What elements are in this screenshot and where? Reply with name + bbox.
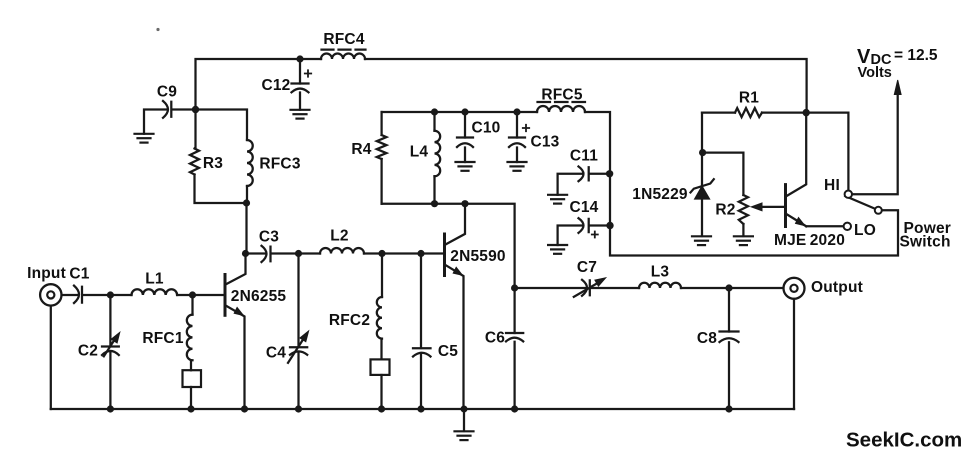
resistor R1: [735, 108, 762, 117]
ferrite bead of RFC1: [183, 370, 202, 387]
node: C9 junction: [192, 106, 199, 113]
svg-text:LO: LO: [854, 222, 876, 239]
inductor RFC1: [187, 315, 193, 361]
node: C3 left junction: [242, 250, 249, 257]
svg-text:L4: L4: [410, 144, 429, 161]
svg-text:R4: R4: [351, 141, 371, 158]
ground at C9: [135, 134, 154, 143]
wire: tank left R4 leads: [380, 112, 382, 204]
svg-text:C10: C10: [471, 120, 500, 137]
output connector: [784, 278, 805, 299]
node: C8 top junction: [725, 284, 732, 291]
variable capacitor C4: [288, 331, 309, 363]
capacitor C3: [262, 246, 271, 262]
wire: bottom ground rail: [51, 408, 794, 410]
wire: R1 row: [702, 113, 848, 191]
wire: C3 row, L2 row to 2N5590 base: [246, 252, 444, 254]
label VDC = 12.5 Volts: [857, 46, 938, 81]
node: C5 junction: [417, 250, 424, 257]
node: L1-RFC1 junction: [189, 291, 196, 298]
wire: MJE2020 emitter to LO: [806, 225, 843, 227]
wire: node right and down to RFC3: [196, 110, 248, 141]
node: RFC3 bottom junction: [243, 199, 250, 206]
wire: RFC3 bottom and drop to C3 row: [245, 186, 248, 254]
wire: input to C1: [62, 294, 78, 296]
node: L4 top: [431, 108, 438, 115]
inductor RFC4: [321, 50, 366, 59]
input connector: [40, 284, 61, 305]
capacitor C12 (electrolytic): [292, 70, 312, 92]
wire: C14 leads and ground stub: [558, 226, 610, 246]
switch contact HI: [845, 191, 852, 198]
svg-text:RFC1: RFC1: [142, 330, 183, 347]
node: L4 bottom: [431, 200, 438, 207]
inductor RFC2: [377, 297, 382, 339]
node: C13 top: [513, 108, 520, 115]
inductor L4: [435, 131, 441, 177]
node: C1-L1 junction: [107, 291, 114, 298]
wire: L1 leads and base wire to 2N6255: [110, 294, 224, 296]
wire: RFC1 branch: [191, 295, 193, 409]
node: zener junction: [699, 149, 706, 156]
VDC arrow: [894, 80, 901, 95]
wire: C7 row and L3 row to output: [515, 287, 784, 289]
node: 2N5590 collector junction: [461, 200, 468, 207]
capacitor C8: [720, 332, 739, 343]
node: C14 junction: [606, 222, 613, 229]
capacitor C11: [579, 167, 589, 182]
svg-text:L1: L1: [145, 271, 164, 288]
wire: C4 branch: [297, 254, 299, 410]
inductor L3: [639, 283, 681, 288]
wire: RFC5 to right vertical, power bottom rail, up to switch pivot: [585, 112, 898, 256]
node: C11 junction: [606, 170, 613, 177]
svg-text:HI: HI: [824, 177, 840, 194]
variable capacitor C7: [574, 278, 606, 297]
wire: HI to VDC arrow riser: [852, 94, 898, 194]
capacitor C13 (electrolytic): [509, 125, 529, 147]
wire: C11 leads and ground stub: [558, 174, 610, 195]
svg-text:R1: R1: [739, 90, 759, 107]
node: C7 row left junction: [511, 284, 518, 291]
svg-text:C11: C11: [570, 148, 598, 165]
wire: C1 to L1 junction: [83, 294, 110, 296]
variable capacitor C2: [102, 332, 120, 356]
resistor R4: [377, 135, 387, 159]
ground at C14: [548, 245, 567, 254]
inductor RFC3: [247, 140, 253, 186]
svg-text:1N5229: 1N5229: [632, 186, 688, 203]
svg-text:RFC3: RFC3: [259, 156, 300, 173]
svg-text:C14: C14: [569, 199, 598, 216]
inductor L1: [132, 289, 178, 295]
svg-text:2N6255: 2N6255: [231, 288, 287, 305]
svg-text:Volts: Volts: [858, 65, 892, 81]
ground at 1N5229: [692, 236, 711, 245]
node: rail 2N6255 emitter: [241, 405, 248, 412]
ground at emitter rail: [455, 409, 474, 440]
ground at C13: [508, 162, 527, 171]
ground at C11: [548, 195, 567, 204]
capacitor C10: [457, 138, 473, 148]
switch pivot: [875, 207, 882, 214]
svg-text:Switch: Switch: [900, 234, 951, 251]
wire: top supply rail right segment down to R1 junction: [365, 59, 807, 113]
capacitor C6: [506, 333, 523, 341]
switch contact LO: [844, 223, 851, 230]
ground at R2: [734, 236, 753, 245]
svg-text:C5: C5: [438, 343, 458, 360]
wire: input connector drop: [50, 306, 52, 409]
wire: RFC2 branch: [380, 254, 383, 410]
svg-text:C9: C9: [157, 84, 177, 101]
potentiometer R2: [739, 195, 748, 224]
svg-text:C3: C3: [259, 229, 279, 246]
wire: C13 leads: [516, 112, 518, 162]
ferrite bead of RFC2: [371, 359, 390, 375]
svg-text:SeekIC.com: SeekIC.com: [846, 429, 962, 452]
svg-text:C2: C2: [78, 343, 98, 360]
node: C12 junction: [296, 55, 303, 62]
wire: tank bottom rail and drop to C7 row and C6: [382, 204, 515, 409]
svg-text:C6: C6: [485, 330, 505, 347]
wire: output connector drop: [793, 299, 795, 409]
svg-text:MJE 2020: MJE 2020: [774, 232, 845, 249]
transistor Q3 MJE2020: [786, 113, 807, 227]
node: rail C8: [725, 405, 732, 412]
svg-text:R2: R2: [715, 202, 735, 219]
node: rail C4: [295, 405, 302, 412]
wire: L4 leads: [433, 112, 435, 204]
wire: C5 branch: [420, 254, 422, 410]
node: rail RFC1: [187, 405, 194, 412]
wire: C10 leads: [464, 112, 466, 162]
ground at C10: [456, 162, 475, 171]
node: rail RFC2: [378, 405, 385, 412]
node: rail ground: [461, 406, 468, 413]
wire: C9 right lead to node: [172, 108, 195, 110]
svg-text:Input: Input: [27, 265, 66, 282]
wire: C8 branch: [728, 288, 730, 409]
svg-text:C1: C1: [69, 266, 89, 283]
svg-text:Output: Output: [811, 279, 863, 296]
svg-text:RFC5: RFC5: [541, 87, 582, 104]
capacitor C14 (electrolytic): [579, 218, 598, 237]
svg-text:RFC4: RFC4: [323, 31, 364, 48]
capacitor C5: [413, 348, 431, 356]
node: rail C5: [417, 405, 424, 412]
svg-text:C4: C4: [266, 345, 286, 362]
wire: C9 left lead to ground: [144, 110, 167, 134]
wire: C12 stubs: [299, 59, 301, 110]
transistor Q1 2N6255: [225, 254, 246, 410]
zener diode 1N5229: [691, 179, 714, 199]
wire: tank top rail: [382, 111, 537, 113]
wire: R3 bottom to RFC3 bottom junction: [195, 175, 247, 204]
node: rail C6: [511, 405, 518, 412]
capacitor C9: [163, 101, 171, 118]
svg-text:R3: R3: [203, 155, 223, 172]
inductor RFC5: [537, 102, 585, 112]
svg-text:C12: C12: [261, 77, 290, 94]
capacitor C1: [74, 286, 82, 303]
svg-text:C8: C8: [697, 330, 717, 347]
svg-text:L2: L2: [330, 228, 349, 245]
svg-text:C13: C13: [530, 134, 559, 151]
wire: top supply rail left segment with vertical from C9 node: [196, 59, 322, 110]
node: rail C2: [107, 405, 114, 412]
svg-text:L3: L3: [651, 264, 670, 281]
resistor R3: [190, 149, 199, 175]
node: RFC2 junction: [378, 250, 385, 257]
wire: switch blade: [845, 196, 875, 209]
transistor Q2 2N5590: [445, 204, 466, 409]
node: C10 top: [461, 108, 468, 115]
ground at C12: [291, 110, 310, 119]
node: R1 right junction: [803, 109, 810, 116]
wire: C2 branch: [109, 295, 111, 409]
wire: R2 branch from zener junction: [703, 153, 744, 236]
svg-text:C7: C7: [577, 259, 597, 276]
svg-text:RFC2: RFC2: [329, 312, 370, 329]
inductor L2: [320, 248, 364, 253]
svg-text:2N5590: 2N5590: [450, 248, 506, 265]
node A (scan speck): [156, 28, 159, 31]
potentiometer wiper arrow of R2: [751, 203, 785, 211]
svg-text:= 12.5: = 12.5: [894, 47, 938, 64]
node: C4 junction: [295, 250, 302, 257]
wire: zener branch vertical: [701, 113, 703, 236]
wire: node down to R3: [194, 110, 196, 149]
